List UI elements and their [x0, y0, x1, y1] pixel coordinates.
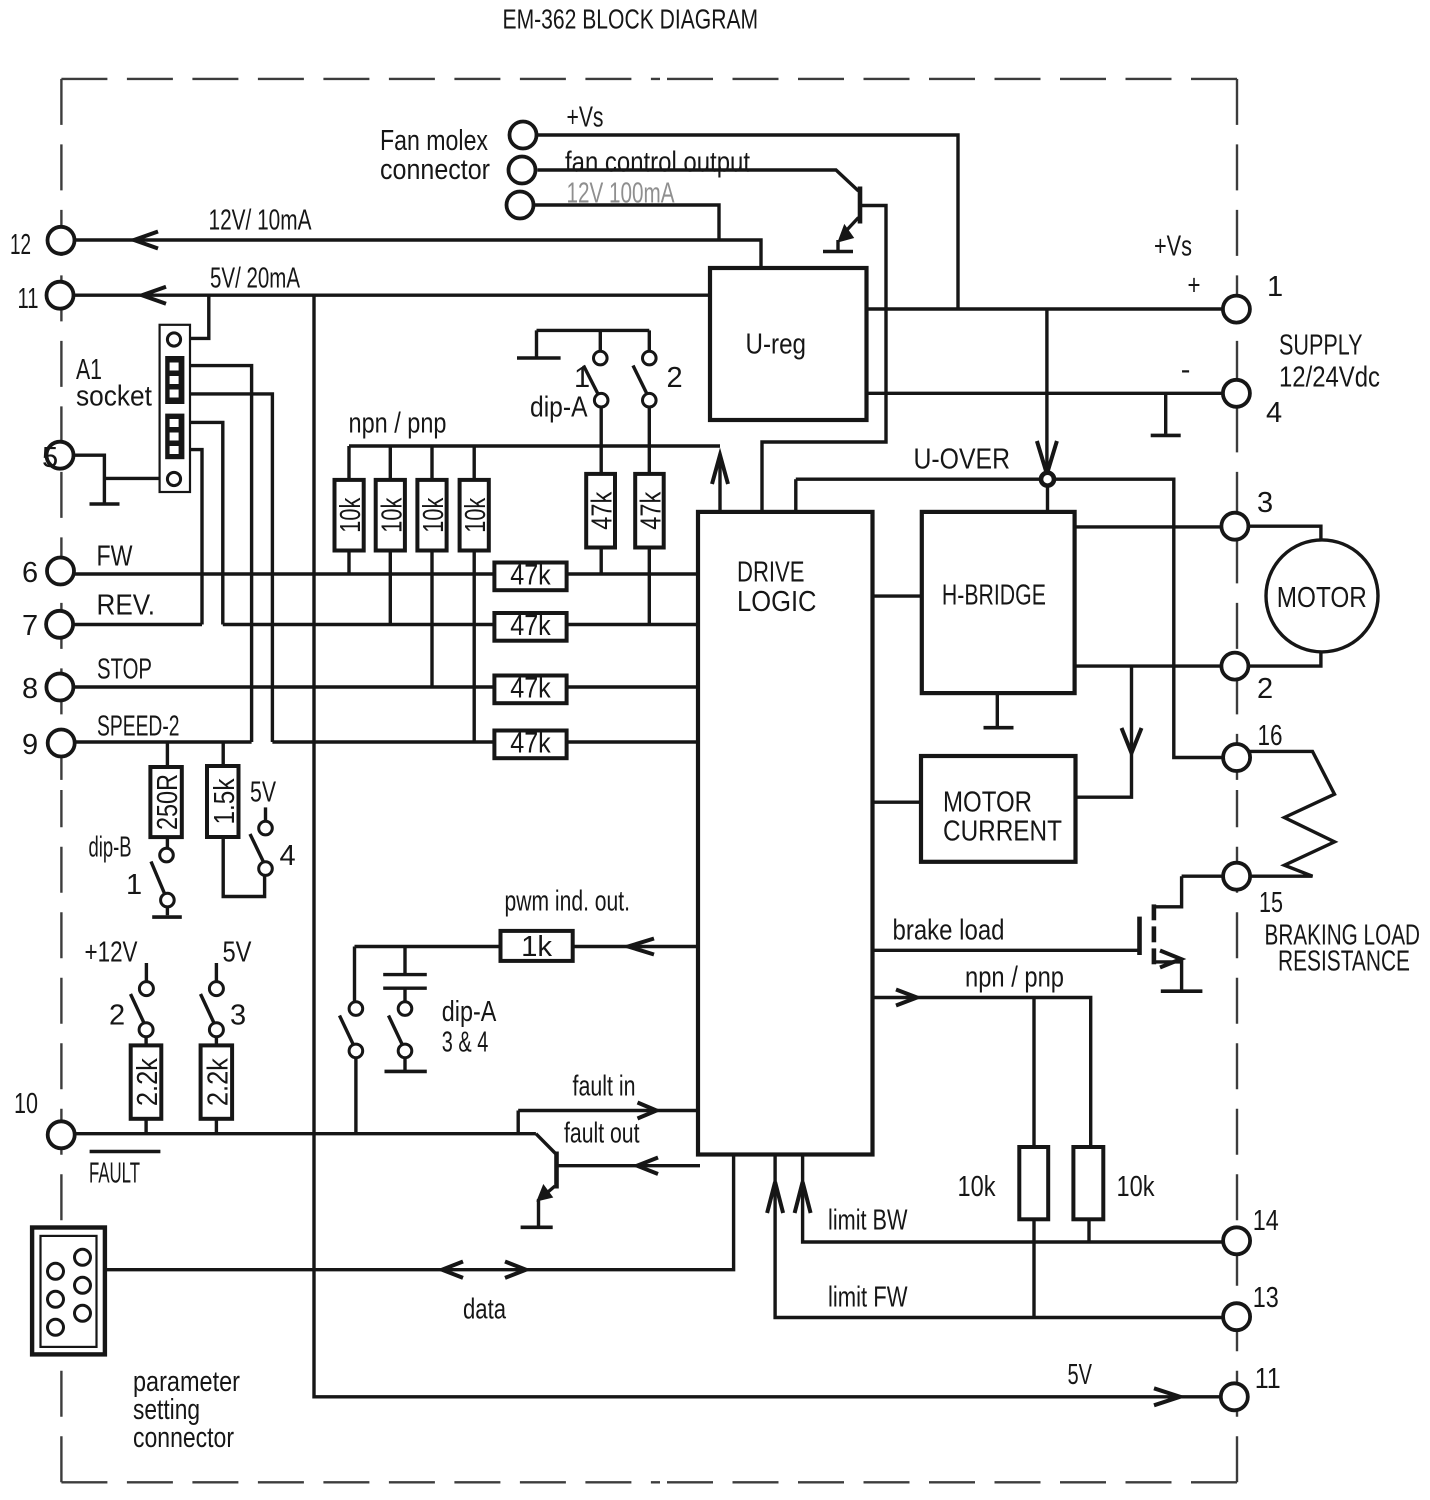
svg-text:npn / pnp: npn / pnp — [965, 962, 1064, 994]
svg-text:connector: connector — [133, 1422, 234, 1454]
svg-text:3: 3 — [1257, 487, 1273, 519]
svg-text:dip-A: dip-A — [442, 996, 497, 1028]
svg-text:15: 15 — [1259, 887, 1283, 919]
svg-text:RESISTANCE: RESISTANCE — [1278, 946, 1410, 978]
svg-text:2: 2 — [109, 1000, 125, 1032]
svg-text:250R: 250R — [152, 774, 184, 830]
svg-text:+12V: +12V — [85, 937, 138, 969]
svg-text:5V: 5V — [223, 937, 253, 969]
svg-text:dip-B: dip-B — [89, 832, 132, 864]
svg-text:3 & 4: 3 & 4 — [442, 1027, 489, 1059]
svg-text:SUPPLY: SUPPLY — [1279, 330, 1363, 362]
svg-text:data: data — [463, 1294, 507, 1326]
svg-text:fan control output: fan control output — [565, 147, 750, 179]
svg-text:MOTOR: MOTOR — [943, 787, 1032, 819]
svg-text:REV.: REV. — [97, 590, 156, 622]
svg-text:47k: 47k — [587, 491, 619, 529]
svg-text:47k: 47k — [510, 610, 551, 642]
svg-text:10k: 10k — [1117, 1171, 1155, 1203]
svg-text:13: 13 — [1253, 1282, 1279, 1314]
svg-text:brake load: brake load — [893, 915, 1005, 947]
svg-text:fault in: fault in — [573, 1071, 636, 1103]
svg-text:STOP: STOP — [97, 654, 152, 686]
svg-text:H-BRIDGE: H-BRIDGE — [942, 580, 1046, 612]
svg-text:4: 4 — [1266, 397, 1282, 429]
svg-text:1: 1 — [574, 362, 590, 394]
svg-text:12V 100mA: 12V 100mA — [567, 178, 675, 210]
svg-text:DRIVE: DRIVE — [737, 557, 805, 589]
svg-text:limit BW: limit BW — [828, 1205, 908, 1237]
svg-text:10k: 10k — [376, 497, 408, 532]
svg-text:limit FW: limit FW — [828, 1282, 908, 1314]
svg-text:+Vs: +Vs — [567, 102, 604, 134]
svg-text:16: 16 — [1258, 720, 1283, 752]
svg-text:dip-A: dip-A — [530, 392, 588, 424]
svg-text:47k: 47k — [510, 560, 551, 592]
svg-text:U-reg: U-reg — [746, 329, 807, 361]
svg-text:FAULT: FAULT — [89, 1158, 140, 1190]
svg-text:5: 5 — [42, 442, 58, 474]
svg-text:12V/ 10mA: 12V/ 10mA — [209, 205, 312, 237]
svg-text:5V: 5V — [250, 777, 276, 809]
svg-text:5V: 5V — [1068, 1359, 1093, 1391]
svg-text:12/24Vdc: 12/24Vdc — [1279, 362, 1380, 394]
svg-text:2: 2 — [667, 362, 683, 394]
svg-text:fault out: fault out — [564, 1118, 640, 1150]
svg-text:10k: 10k — [460, 497, 492, 532]
svg-text:47k: 47k — [636, 491, 668, 529]
svg-text:2.2k: 2.2k — [132, 1058, 164, 1106]
svg-text:10: 10 — [14, 1088, 38, 1120]
svg-text:-: - — [1181, 354, 1191, 386]
svg-text:4: 4 — [280, 840, 296, 872]
svg-text:10k: 10k — [418, 497, 450, 532]
svg-text:5V/ 20mA: 5V/ 20mA — [210, 263, 300, 295]
svg-text:1: 1 — [1267, 271, 1283, 303]
svg-text:10k: 10k — [335, 497, 367, 532]
svg-text:9: 9 — [22, 729, 38, 761]
svg-text:1k: 1k — [521, 931, 552, 963]
svg-text:LOGIC: LOGIC — [737, 586, 817, 618]
svg-text:pwm ind. out.: pwm ind. out. — [505, 886, 631, 918]
svg-text:+Vs: +Vs — [1154, 231, 1192, 263]
svg-text:EM-362 BLOCK DIAGRAM: EM-362 BLOCK DIAGRAM — [503, 4, 759, 35]
svg-text:8: 8 — [22, 673, 38, 705]
svg-text:connector: connector — [380, 154, 490, 186]
svg-text:U-OVER: U-OVER — [914, 444, 1011, 476]
svg-text:12: 12 — [10, 229, 31, 261]
svg-text:MOTOR: MOTOR — [1277, 582, 1367, 614]
svg-text:10k: 10k — [958, 1171, 996, 1203]
svg-text:47k: 47k — [510, 728, 551, 760]
svg-text:11: 11 — [18, 283, 39, 315]
svg-text:FW: FW — [97, 541, 133, 573]
svg-text:CURRENT: CURRENT — [943, 816, 1062, 848]
svg-text:7: 7 — [22, 610, 38, 642]
svg-text:47k: 47k — [510, 673, 551, 705]
svg-text:14: 14 — [1253, 1205, 1279, 1237]
svg-text:1.5k: 1.5k — [209, 778, 241, 824]
svg-text:+: + — [1188, 270, 1201, 302]
svg-text:2.2k: 2.2k — [202, 1058, 234, 1106]
svg-text:11: 11 — [1255, 1363, 1281, 1395]
svg-text:socket: socket — [76, 381, 152, 413]
svg-text:3: 3 — [230, 1000, 246, 1032]
svg-text:Fan molex: Fan molex — [380, 125, 488, 157]
svg-text:SPEED-2: SPEED-2 — [97, 711, 180, 743]
svg-text:npn / pnp: npn / pnp — [349, 408, 447, 440]
svg-text:6: 6 — [22, 557, 38, 589]
svg-text:1: 1 — [126, 869, 142, 901]
svg-text:2: 2 — [1257, 673, 1273, 705]
